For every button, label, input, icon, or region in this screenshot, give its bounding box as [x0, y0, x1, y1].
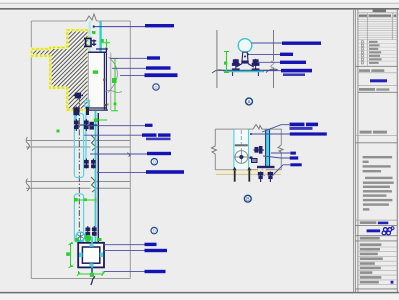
detail2 leader long — [250, 133, 290, 135]
label bar 10 — [145, 249, 168, 252]
panel corner maroon dot — [104, 104, 106, 106]
leader 8 — [97, 171, 147, 173]
detail2 bar s1 — [290, 152, 296, 155]
detail2 bar long — [290, 132, 327, 135]
tb date row — [359, 88, 375, 91]
label bar 3 — [146, 66, 171, 69]
detail1 leader 4 — [263, 70, 281, 72]
leader 10 — [103, 250, 146, 252]
cyan circle gasket — [76, 232, 85, 241]
green blob — [85, 235, 91, 242]
bolt cluster A — [75, 119, 98, 131]
detail1 bar 1 — [282, 42, 321, 45]
detail1 bar 4 subtext — [283, 73, 305, 76]
tb section line — [355, 65, 397, 67]
bolt cluster B — [85, 159, 96, 169]
lower cyan pair — [85, 111, 87, 160]
leader 7 frame break — [128, 153, 131, 157]
label bar 1 — [145, 24, 174, 27]
bottom section arrow — [91, 268, 93, 277]
wall line right — [273, 30, 275, 61]
floor slab lines pair 1 — [26, 141, 130, 148]
detail2 text block — [290, 123, 305, 127]
detail2 bar s3 — [290, 163, 301, 166]
teal stub top — [91, 237, 93, 244]
detail2 leader s1 — [271, 152, 290, 154]
plan bolt left — [254, 147, 265, 154]
arc swing line — [108, 57, 117, 93]
tb header bar — [373, 9, 386, 12]
interior finish line — [110, 53, 112, 111]
mullion bright teal line — [99, 22, 101, 53]
detail1 bar 3 — [280, 61, 306, 64]
concrete hatch polygon — [32, 30, 89, 110]
svg-text:D: D — [153, 160, 156, 165]
centerline dash-dot — [78, 95, 80, 250]
sheet left double border — [353, 9, 355, 292]
plan center dash — [240, 130, 242, 150]
svg-text:D: D — [153, 229, 156, 234]
anchor neck — [242, 52, 248, 61]
plan rect — [215, 129, 281, 170]
green square markers — [57, 31, 117, 133]
detail marker D1 — [153, 84, 159, 90]
embed bolts under slab — [74, 93, 89, 116]
tube cyan tabs — [79, 244, 103, 267]
yellow strip — [216, 170, 281, 174]
glass maroon dot — [103, 79, 105, 81]
top sheet border — [0, 8, 399, 10]
leader 3 — [112, 67, 147, 69]
svg-text:A: A — [247, 100, 251, 106]
detail1 leader 2 — [247, 53, 280, 55]
left bolt — [232, 59, 239, 76]
anchor circle — [238, 39, 252, 53]
detail marker D2 — [151, 159, 157, 165]
leader 1 — [94, 26, 146, 28]
tb notes lines — [363, 156, 394, 211]
bolt cluster C — [86, 226, 96, 236]
tb project row — [360, 131, 372, 134]
steel tube inner dark — [82, 247, 99, 263]
label bar 2 — [147, 56, 160, 59]
main viewport frame — [31, 21, 130, 279]
top thin line — [0, 2, 399, 4]
tb scale row — [359, 69, 370, 72]
leader 11 — [104, 271, 146, 273]
detail2 text leader — [262, 125, 289, 132]
wall line left — [216, 30, 218, 88]
tb sign row — [355, 219, 397, 221]
green mid dim — [74, 198, 97, 203]
hatch yellow dashed outline — [32, 30, 89, 110]
label bar 9 — [145, 243, 157, 246]
tb company row — [360, 237, 380, 240]
bottom sheet border — [0, 292, 399, 294]
tb table grid — [358, 17, 397, 40]
green tube dim left — [69, 242, 74, 268]
rect breaks — [253, 125, 262, 130]
detail2 leader s2 — [263, 156, 290, 158]
leader 6 — [84, 134, 143, 136]
embed bracket top — [84, 38, 91, 46]
leader 9 — [103, 244, 146, 246]
tb bottom rows — [360, 243, 383, 283]
lower mullion cyan profile upper — [74, 114, 83, 178]
tube flank green squares — [75, 238, 79, 242]
lower mullion cyan profile lower — [74, 194, 83, 242]
plan cyan band — [234, 130, 249, 170]
right bolt — [252, 59, 259, 76]
steel tube outer — [78, 243, 104, 268]
section break squiggle — [91, 276, 95, 285]
sheet right border — [396, 9, 398, 292]
detail1 leader 1 — [252, 42, 283, 44]
plan heavy dash — [235, 144, 248, 146]
title block left edge — [357, 9, 359, 292]
floor slab lines pair 2 — [26, 182, 130, 189]
embed plate base — [218, 69, 277, 71]
label bar 11 — [145, 270, 166, 273]
tb blue signature — [370, 79, 387, 82]
tb blue square — [391, 281, 394, 284]
plan circle anchor — [235, 151, 248, 164]
plan small parts — [252, 159, 258, 163]
detail1 bar 4 — [281, 69, 312, 73]
panel corner green dot — [107, 104, 109, 106]
label bar 6 subtext — [146, 138, 171, 141]
plan black arrows — [233, 167, 237, 171]
plan base ticks — [257, 166, 275, 168]
detail1 marker — [244, 97, 253, 106]
detail1 bar 2 — [280, 53, 293, 56]
top break zigzag — [86, 14, 97, 21]
detail2 marker — [243, 194, 252, 203]
glass green marker — [93, 70, 98, 73]
green tube dim bottom — [77, 271, 105, 276]
svg-text:D: D — [154, 85, 157, 90]
svg-text:B: B — [246, 197, 250, 203]
plan bolts below — [258, 172, 272, 183]
label bar 4 — [145, 73, 178, 77]
detail2 leader s3 — [272, 165, 290, 176]
green dim detail1 — [224, 51, 229, 73]
label bar 5 — [145, 124, 153, 127]
label bar 7 — [147, 152, 171, 155]
tb logo — [367, 229, 381, 232]
label bar 6 — [142, 133, 157, 136]
glass panel — [88, 52, 106, 109]
green square below tube — [90, 273, 94, 277]
tb row1 bars — [359, 15, 367, 17]
base left squiggle — [212, 70, 224, 73]
slab break zigzag 2 — [91, 177, 96, 192]
anchor legs — [236, 64, 254, 67]
lower glass dark vertical — [97, 113, 99, 242]
plan mullion cyan bar — [266, 130, 270, 166]
leader 2 — [110, 57, 148, 59]
mullion pale cyan line — [89, 22, 91, 53]
detail marker D3 — [151, 227, 157, 233]
leader 5 — [86, 125, 146, 127]
cyan connection parts — [85, 100, 90, 106]
slab break zigzag 1 — [91, 135, 96, 151]
leader 7 — [90, 153, 148, 155]
green square left of tube — [66, 252, 70, 256]
detail1 leader 3 — [257, 61, 280, 63]
detail2 bar s2 — [290, 156, 298, 159]
leader 4 — [120, 75, 146, 77]
label bar 8 — [146, 170, 184, 174]
tb checkbox rows — [358, 41, 397, 64]
tb table verticals — [366, 13, 368, 66]
green dim top bracket — [111, 58, 119, 111]
bracket bolt — [92, 40, 96, 47]
base cyan insert — [224, 71, 264, 73]
teal stub bottom — [91, 267, 93, 272]
